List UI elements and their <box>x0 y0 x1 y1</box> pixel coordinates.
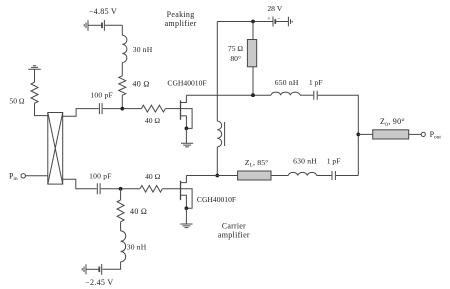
inductor 30 nH (peaking gate bias) <box>122 35 127 62</box>
svg-text:Carrier: Carrier <box>222 221 246 230</box>
svg-text:40 Ω: 40 Ω <box>145 172 160 181</box>
wire <box>103 108 142 110</box>
ground (sideways, 28 V supply) <box>288 17 292 26</box>
svg-text:−4.85 V: −4.85 V <box>89 7 117 16</box>
svg-text:amplifier: amplifier <box>218 231 250 240</box>
transistor Q2 CGH40010F (carrier) <box>181 176 193 225</box>
svg-text:40 Ω: 40 Ω <box>132 80 149 89</box>
node <box>251 20 255 24</box>
svg-text:28 V: 28 V <box>267 4 282 13</box>
hybrid coupler X1 <box>48 113 63 185</box>
svg-text:80°: 80° <box>230 54 241 63</box>
resistor 40 ohm (carrier series) <box>140 186 162 193</box>
wire <box>101 188 140 190</box>
capacitor 100 pF (peaking input) <box>99 103 102 114</box>
transmission line TL1 75 ohm 80deg <box>247 40 256 67</box>
output terminal Pout <box>421 132 425 136</box>
inductor (center shunt) <box>217 121 224 147</box>
wire (stub feed) <box>252 22 254 40</box>
svg-text:CGH40010F: CGH40010F <box>197 195 236 204</box>
svg-text:CGH40010F: CGH40010F <box>167 79 206 88</box>
transmission line TL2 ZL 85deg <box>238 171 271 180</box>
svg-text:30 nH: 30 nH <box>127 242 147 251</box>
node (combining junction) <box>215 174 219 178</box>
svg-text:50 Ω: 50 Ω <box>9 97 24 106</box>
wire <box>216 147 218 176</box>
svg-text:40 Ω: 40 Ω <box>130 207 147 216</box>
svg-text:75 Ω: 75 Ω <box>228 44 243 53</box>
node <box>251 93 255 97</box>
wire <box>34 69 36 82</box>
wire (coupler to peaking path) <box>63 109 99 117</box>
svg-text:40 Ω: 40 Ω <box>145 116 160 125</box>
svg-text:1 pF: 1 pF <box>309 78 323 87</box>
resistor R 50 ohm <box>31 82 38 103</box>
svg-text:amplifier: amplifier <box>165 19 197 28</box>
node (peaking gate bias junction) <box>120 107 124 111</box>
inductor 630 nH <box>288 172 316 175</box>
battery V2 -2.45 V <box>86 264 101 275</box>
wire <box>121 95 123 108</box>
wire <box>409 133 422 135</box>
wire <box>121 25 123 35</box>
wire <box>35 103 48 115</box>
battery V3 28 V <box>273 17 288 27</box>
ground (up-pointing, 50 ohm isolation port) <box>28 66 41 70</box>
wire <box>271 175 288 177</box>
wire <box>165 108 180 110</box>
svg-text:Peaking: Peaking <box>167 10 195 19</box>
ground (sideways, -4.85 V supply) <box>84 20 88 31</box>
resistor 40 ohm (carrier bias) <box>117 200 124 222</box>
ground (sideways, -2.45 V supply) <box>82 264 86 274</box>
svg-text:650 nH: 650 nH <box>275 78 299 87</box>
wire <box>25 175 47 177</box>
svg-text:−: − <box>277 16 281 22</box>
wire <box>318 95 359 175</box>
wire <box>252 67 254 95</box>
wire (coupler to carrier path) <box>63 179 97 189</box>
ground (peaking source) <box>181 143 193 147</box>
wire <box>102 262 120 270</box>
wire (top feed) <box>217 21 272 23</box>
wire <box>121 63 123 76</box>
svg-text:100 pF: 100 pF <box>89 171 112 180</box>
wire (peaking drain line) <box>186 94 271 96</box>
capacitor 100 pF (carrier input) <box>97 183 100 194</box>
svg-text:100 pF: 100 pF <box>90 91 113 100</box>
node (output junction) <box>356 133 360 137</box>
capacitor 1 pF (carrier output) <box>332 171 335 180</box>
resistor 40 ohm (peaking bias) <box>119 76 126 96</box>
resistor 40 ohm (peaking series) <box>141 105 165 112</box>
input terminal Pin <box>21 174 25 178</box>
node (carrier gate bias junction) <box>119 187 123 191</box>
svg-text:30 nH: 30 nH <box>133 45 153 54</box>
wire (top rail) <box>216 22 218 122</box>
wire <box>162 188 180 190</box>
wire <box>120 222 122 231</box>
svg-text:−2.45 V: −2.45 V <box>85 278 113 287</box>
inductor 650 nH <box>271 92 300 95</box>
wire <box>317 175 332 177</box>
inductor 30 nH (carrier gate bias) <box>121 231 126 262</box>
svg-text:630 nH: 630 nH <box>293 156 317 165</box>
svg-text:1 pF: 1 pF <box>327 156 341 165</box>
wire (carrier bias chain) <box>120 189 122 200</box>
wire <box>358 133 372 135</box>
ground (carrier source) <box>180 224 192 228</box>
battery V1 -4.85 V <box>88 20 122 31</box>
wire <box>300 94 313 96</box>
wire (carrier drain line) <box>186 175 237 177</box>
transmission line TL3 Z0 90deg <box>373 130 409 139</box>
transistor Q1 CGH40010F (peaking) <box>181 95 193 143</box>
wire <box>336 175 358 177</box>
capacitor 1 pF (peaking output) <box>314 91 317 100</box>
